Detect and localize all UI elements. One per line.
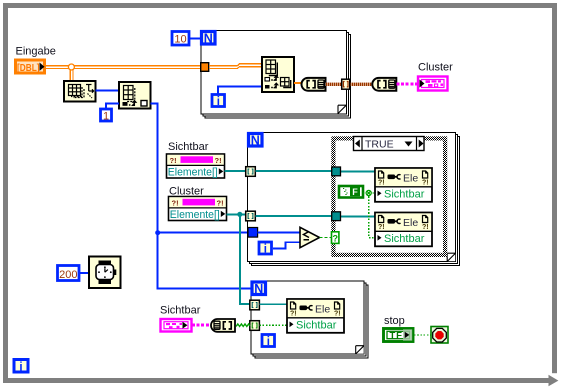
svg-text:Ele: Ele: [315, 304, 330, 316]
wire: green zigzag boolean array wire to tunnel: [236, 324, 250, 327]
svg-text:i: i: [217, 96, 220, 108]
svg-text:stop: stop: [384, 315, 405, 327]
count terminal N (middle loop): [249, 133, 263, 147]
svg-text:?!: ?!: [378, 224, 385, 231]
wire junction (green circled dot): [366, 190, 371, 195]
svg-text:?!: ?!: [172, 199, 179, 208]
wire: green dotted boolean tunnel to P3 Sichtbar input: [259, 324, 287, 326]
wire: cluster-array wire (brown hatched) U4 to tunnel to U5: [326, 83, 343, 86]
wire: DBL array wire (orange double) to junction and loop tunnel: [46, 66, 201, 69]
svg-text:?!: ?!: [422, 180, 429, 187]
for loop frame (top): [201, 31, 351, 118]
icon U4 array-to-cluster: [302, 78, 326, 91]
svg-text:Sichtbar: Sichtbar: [384, 233, 425, 245]
wire: green dotted stop to button: [414, 334, 431, 336]
icon U7 cluster-to-array: [211, 319, 235, 332]
wire: i up and right to U3: [218, 86, 262, 94]
svg-text:Cluster: Cluster: [418, 62, 453, 74]
boolean constant F: [339, 186, 363, 198]
svg-text:Sichtbar: Sichtbar: [296, 320, 337, 332]
stop button (red octagon): [431, 327, 448, 344]
svg-text:?!: ?!: [290, 311, 297, 318]
case structure hatched border: [331, 136, 447, 257]
control terminal stop TF: [384, 329, 414, 342]
wire: teal array wire Cluster to middle loop tunnel and down to bottom loop: [227, 214, 251, 303]
wire junction dot (blue): [155, 230, 160, 235]
svg-text:Sichtbar: Sichtbar: [168, 141, 209, 153]
wire: teal element wire tunnel to property node P3: [259, 303, 287, 305]
comparator less-or-equal?: [300, 227, 320, 247]
tunnel (top loop right border): [342, 79, 350, 89]
svg-text:F: F: [352, 187, 358, 197]
property node P2 Ele:Sichtbar: [375, 213, 432, 247]
wire: cluster wire (magenta dashed) to Cluster indicator: [397, 83, 418, 86]
count terminal N (top loop): [202, 31, 216, 45]
control terminal Eingabe [DBL]: [16, 60, 45, 74]
svg-text:?!: ?!: [215, 156, 222, 165]
svg-text:?!: ?!: [334, 311, 341, 318]
case selector label TRUE: [354, 137, 425, 152]
svg-text:TF: TF: [390, 330, 403, 341]
while loop iteration terminal i: [14, 360, 28, 374]
tunnel (blue, non-indexing): [248, 228, 258, 238]
tunnel (auto-index, teal cluster array in): [250, 300, 260, 310]
wire: orange array inside loop with jog: [209, 64, 262, 69]
svg-text:Cluster: Cluster: [169, 186, 204, 198]
wire: U2 output right, down, to middle loop tunnel and bottom loop N: [151, 104, 251, 289]
wire: orange scalar out of U3: [294, 82, 301, 84]
svg-text:N: N: [251, 133, 260, 147]
svg-text:Elemente[]: Elemente[]: [168, 167, 218, 179]
property node P1 Ele:Sichtbar: [375, 168, 432, 202]
wire: teal array wire Sichtbar to middle loop: [225, 170, 333, 172]
icon U5 array-to-cluster (outside loop): [372, 78, 396, 91]
svg-text:10: 10: [174, 34, 186, 46]
iteration terminal i (bottom loop): [262, 335, 275, 348]
wire: blue from tunnel to comparator: [258, 232, 300, 234]
svg-text:Ele: Ele: [403, 217, 418, 229]
tunnel (auto-index, boolean array in): [250, 321, 260, 331]
wire: vertical orange branch down to array-size icon: [70, 68, 73, 81]
control terminal Sichtbar (pink cluster): [161, 319, 192, 332]
wire: green dotted from F through junction to property nodes: [363, 193, 375, 238]
tunnel (teal, case left border, upper): [332, 167, 341, 176]
svg-text:Sichtbar: Sichtbar: [160, 305, 201, 317]
wire: teal wires from case tunnels to property nodes: [341, 172, 376, 217]
case selector tunnel ?: [332, 232, 339, 244]
iteration terminal i (top loop): [212, 95, 225, 108]
svg-text:?!: ?!: [422, 224, 429, 231]
control terminal Cluster Elemente[]: [169, 197, 227, 222]
svg-text:i: i: [267, 336, 270, 348]
for loop dog-ear corner (middle): [447, 253, 455, 261]
svg-text:?!: ?!: [217, 199, 224, 208]
svg-text:N: N: [204, 31, 213, 45]
svg-text:i: i: [19, 362, 22, 374]
property node P3 Ele:Sichtbar (bottom loop): [287, 299, 344, 333]
wire: 200 to wait function: [80, 272, 89, 274]
wire: i to comparator lower input: [273, 242, 300, 248]
icon U3 index array (big, inside top loop): [262, 57, 294, 92]
svg-text:?!: ?!: [170, 156, 177, 165]
numeric constant 1: [101, 109, 112, 122]
icon U6 wait until next ms multiple (clock): [89, 257, 121, 289]
wire: 10 to N: [190, 37, 201, 39]
teal wires inside middle loop: [255, 171, 332, 216]
svg-text:N: N: [254, 282, 263, 296]
icon U2 initialize/reshape array: [119, 82, 151, 109]
svg-text:Eingabe: Eingabe: [16, 46, 56, 58]
numeric constant 200: [58, 266, 80, 281]
while loop flow arrow (bottom-right corner): [549, 373, 560, 386]
tunnel (teal, case left border, lower): [332, 212, 341, 221]
svg-text:[DBL]: [DBL]: [17, 63, 40, 74]
iteration terminal i (middle loop): [259, 242, 272, 255]
for loop dog-ear corner: [338, 105, 346, 113]
indicator terminal Cluster: [418, 77, 448, 91]
svg-text:Elemente[]: Elemente[]: [170, 209, 220, 221]
svg-text:1: 1: [103, 110, 109, 122]
tunnel (orange, auto-index input): [201, 63, 209, 72]
numeric constant 10: [172, 32, 189, 46]
svg-text:i: i: [264, 243, 267, 255]
svg-text:Sichtbar: Sichtbar: [384, 189, 425, 201]
tunnel (auto-index, Sichtbar wire): [246, 167, 256, 177]
count terminal N (bottom loop): [252, 282, 266, 296]
for loop frame (bottom): [251, 281, 368, 358]
control terminal Sichtbar Elemente[]: [167, 154, 225, 179]
svg-text:?!: ?!: [378, 180, 385, 187]
wire: green dashed selector wire to ? tunnel: [320, 237, 332, 239]
svg-text:Ele: Ele: [403, 173, 418, 185]
for loop frame (middle): [248, 133, 460, 266]
wire: magenta dashed cluster wire to U7: [192, 324, 211, 327]
for loop dog-ear corner (bottom): [356, 346, 364, 354]
wire: constant 1 up to U2: [106, 104, 119, 109]
wire junction dot (teal): [237, 212, 242, 217]
svg-text:TRUE: TRUE: [365, 139, 394, 151]
wire junction (solder dot circle): [68, 64, 74, 70]
svg-text:200: 200: [59, 269, 77, 281]
icon U1 array function (grid + size glyph): [64, 81, 96, 102]
wire: blue int between icons: [96, 90, 120, 92]
tunnel (auto-index, Cluster wire): [246, 211, 256, 221]
svg-text:?: ?: [333, 233, 339, 243]
